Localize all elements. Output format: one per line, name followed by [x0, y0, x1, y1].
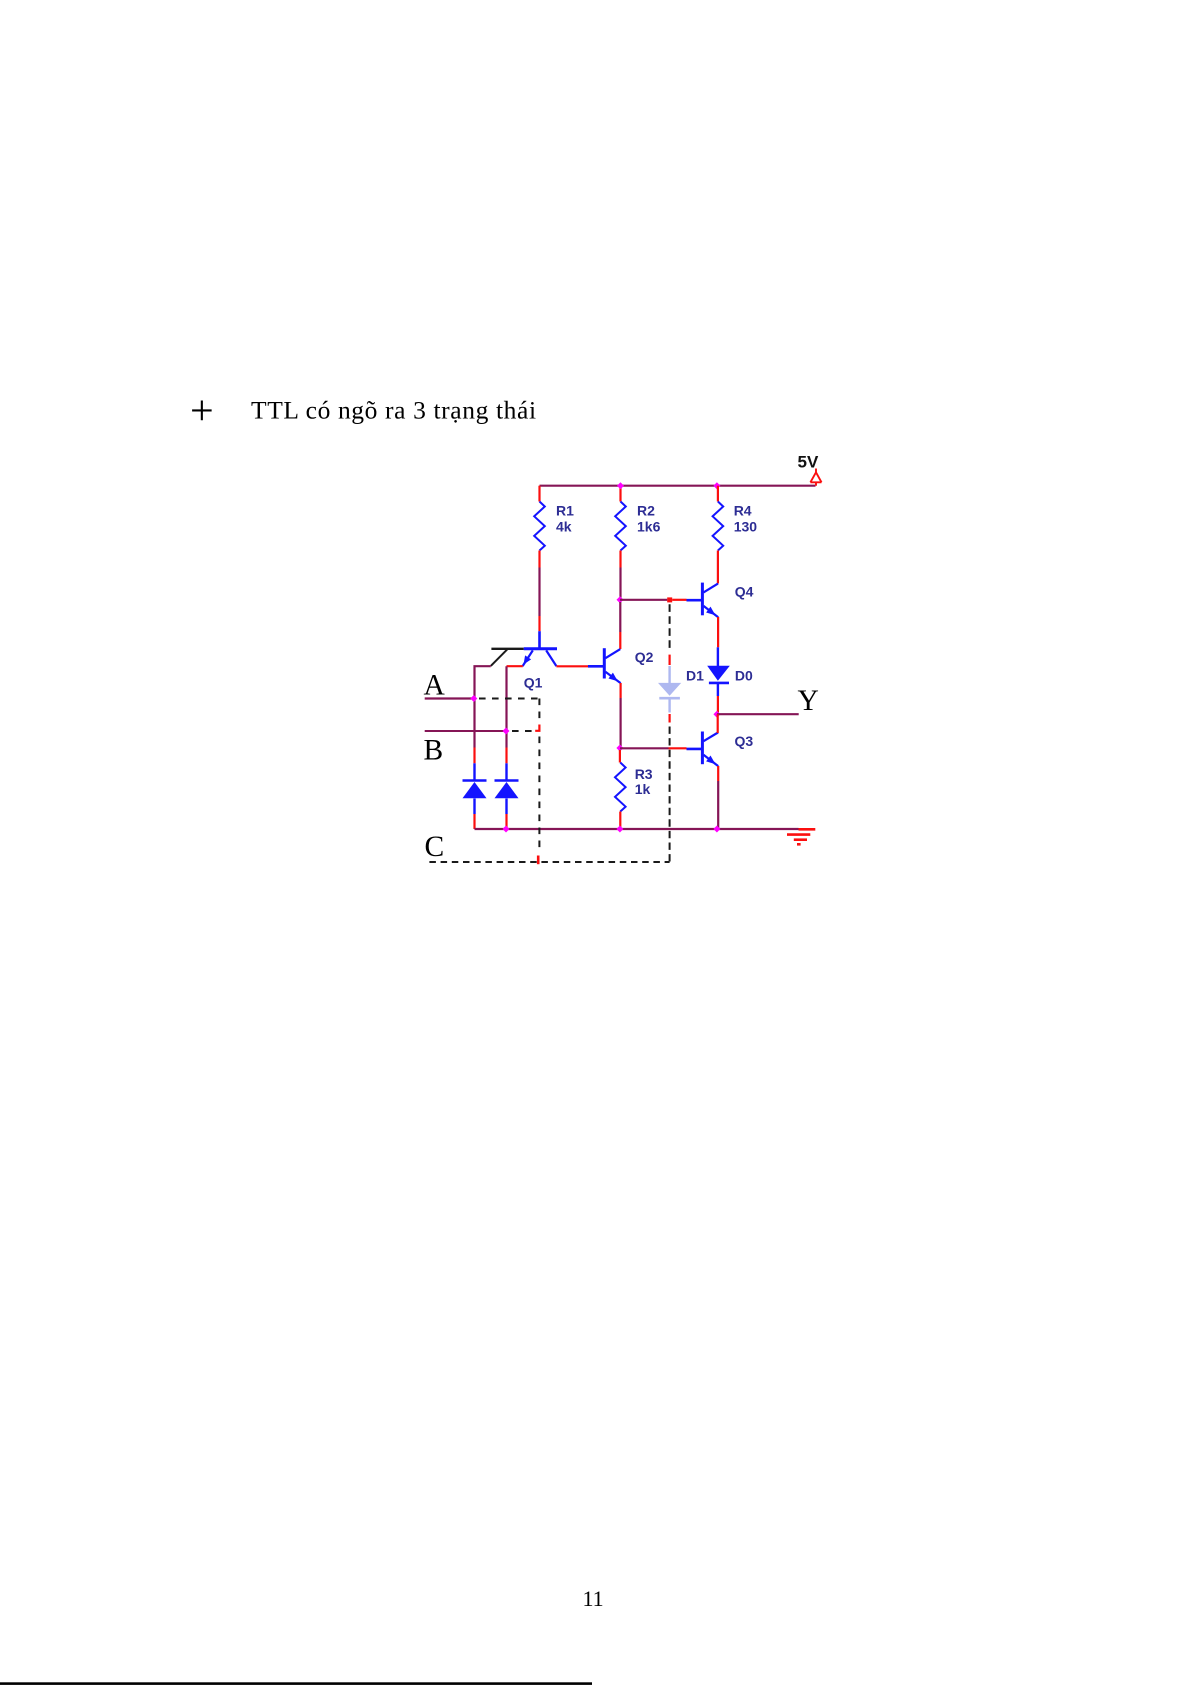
dashed line C horizontal	[429, 861, 669, 863]
wire node down to R3	[619, 750, 621, 763]
dashed control vertical 1	[538, 699, 540, 722]
power symbol 5V arrow	[810, 469, 821, 486]
wire bottom ground rail	[475, 828, 799, 830]
wire Q3 collector to Y	[717, 714, 719, 733]
node Y junction	[713, 711, 720, 718]
junction dot R4 top rail	[713, 482, 720, 489]
wire Q4 emitter to D0	[717, 617, 719, 647]
svg-text:1k: 1k	[635, 781, 651, 797]
wire Q1 emitter2 stub (red)	[507, 665, 523, 667]
dashed control vertical 2 (C to Q4 base)	[669, 727, 671, 862]
svg-text:Q4: Q4	[735, 584, 754, 600]
transistor Q4	[687, 583, 754, 618]
svg-text:+: +	[190, 389, 214, 435]
svg-text:D1: D1	[686, 667, 704, 683]
diode D1 (disabled/ghost)	[658, 666, 681, 713]
wire Q1 emitter1 corner (maroon)	[475, 666, 491, 747]
wire D0 to Y node	[717, 696, 719, 713]
ground symbol	[787, 835, 810, 845]
svg-text:TTL có ngõ ra 3 trạng thái: TTL có ngõ ra 3 trạng thái	[251, 396, 537, 425]
svg-text:Q3: Q3	[735, 733, 754, 749]
node Q2emitter/R3/Q3base	[616, 745, 623, 752]
svg-text:R2: R2	[637, 503, 655, 519]
wire Q1 collector to Q2 base	[556, 665, 588, 667]
svg-text:Q2: Q2	[635, 649, 654, 665]
svg-text:4k: 4k	[556, 519, 572, 535]
svg-text:R3: R3	[635, 766, 653, 782]
wire A vertical red to diode	[473, 748, 475, 764]
input wire A	[425, 697, 475, 699]
input wire B	[425, 730, 507, 732]
node Q3/rail	[713, 826, 720, 833]
dashed line B to control column	[512, 730, 533, 732]
wire emitter2 vertical	[505, 666, 507, 747]
transistor Q1 (multi-emitter input)	[491, 631, 557, 690]
svg-text:130: 130	[734, 519, 758, 535]
wire node to Q3 base	[620, 747, 669, 749]
svg-text:Q1: Q1	[524, 675, 543, 691]
resistor R1	[538, 486, 540, 502]
transistor Q3	[687, 732, 754, 767]
svg-text:R4: R4	[734, 503, 752, 519]
node: red square dangling point Q4 base	[667, 597, 672, 602]
diode DB (input clamp B)	[495, 763, 519, 814]
svg-text:11: 11	[583, 1586, 604, 1611]
svg-text:A: A	[424, 669, 446, 701]
svg-text:5V: 5V	[798, 453, 819, 472]
junction dot R2 top rail	[617, 482, 624, 489]
svg-text:C: C	[425, 831, 445, 863]
wire Q3 emitter down	[717, 766, 719, 781]
node R3/rail	[616, 826, 623, 833]
dashed line A to control column	[479, 698, 539, 700]
node R2/Q4 junction	[617, 596, 624, 603]
svg-text:Y: Y	[798, 685, 819, 717]
wire R2 node down to Q2 collector	[619, 602, 621, 632]
wire R2 node to Q4 base	[620, 599, 667, 601]
wire: top power rail	[540, 485, 816, 487]
wire R1 bottom to Q1	[538, 568, 540, 617]
svg-text:R1: R1	[556, 503, 574, 519]
diode D0	[686, 647, 753, 696]
diode DA (input clamp A)	[463, 763, 487, 814]
resistor R3	[615, 763, 626, 812]
wire Y output	[717, 713, 799, 715]
resistor R4	[717, 486, 719, 502]
node A junction	[470, 695, 477, 702]
footer rule	[0, 1682, 592, 1685]
node DB/rail	[503, 826, 510, 833]
wire R2 bottom to node	[619, 568, 621, 598]
svg-text:1k6: 1k6	[637, 519, 661, 535]
svg-text:B: B	[424, 735, 444, 767]
wire B vertical red to diode	[505, 748, 507, 764]
red tick at C junction	[537, 856, 540, 865]
wire Q2 emitter down to node	[619, 683, 621, 698]
resistor R2	[619, 486, 621, 502]
node B junction	[503, 728, 510, 735]
transistor Q2	[588, 648, 654, 683]
svg-text:D0: D0	[735, 667, 753, 683]
